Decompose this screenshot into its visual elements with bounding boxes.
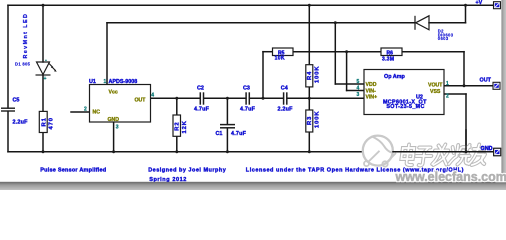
svg-text:VSS: VSS [430, 89, 441, 95]
svg-text:0603: 0603 [438, 36, 449, 41]
svg-text:R1: R1 [41, 117, 47, 126]
svg-text:OUT: OUT [480, 78, 492, 84]
svg-text:1: 1 [446, 81, 449, 87]
svg-text:OUT: OUT [135, 98, 147, 104]
svg-text:R3: R3 [307, 116, 313, 125]
svg-text:+V: +V [476, 0, 483, 6]
svg-text:-: - [45, 58, 47, 64]
svg-text:3: 3 [357, 92, 360, 98]
svg-text:12K: 12K [182, 120, 188, 133]
svg-text:4.7uF: 4.7uF [240, 107, 256, 113]
svg-text:4.7uF: 4.7uF [194, 107, 210, 113]
svg-text:R6: R6 [387, 50, 394, 56]
svg-text:VIN-: VIN- [366, 89, 377, 95]
svg-text:1: 1 [104, 79, 107, 85]
svg-text:VOUT: VOUT [428, 83, 443, 89]
svg-text:GND: GND [108, 117, 120, 123]
svg-text:RevMnt LED: RevMnt LED [23, 13, 29, 59]
svg-text:2.2uF: 2.2uF [278, 107, 294, 113]
svg-text:100K: 100K [314, 111, 320, 128]
svg-text:+: + [44, 76, 47, 82]
svg-text:C3: C3 [243, 86, 250, 92]
svg-text:U1: U1 [89, 79, 96, 85]
svg-text:VIN+: VIN+ [366, 95, 378, 101]
svg-text:C5: C5 [13, 98, 20, 104]
svg-text:C2: C2 [197, 86, 204, 92]
svg-text:APDS-9008: APDS-9008 [109, 79, 138, 85]
svg-text:Designed by Joel Murphy: Designed by Joel Murphy [148, 168, 227, 174]
svg-text:10K: 10K [275, 56, 285, 62]
svg-text:D1 805: D1 805 [15, 62, 31, 67]
svg-text:Pulse Sensor Amplified: Pulse Sensor Amplified [40, 168, 106, 174]
svg-text:R2: R2 [174, 121, 180, 130]
svg-text:VDD: VDD [366, 82, 377, 88]
svg-text:5: 5 [357, 79, 360, 85]
svg-text:C1: C1 [216, 131, 223, 137]
svg-text:3: 3 [116, 125, 119, 131]
svg-text:R4: R4 [307, 71, 313, 80]
svg-text:Op Amp: Op Amp [384, 74, 405, 80]
svg-text:3.3M: 3.3M [382, 57, 394, 63]
svg-text:4.7uF: 4.7uF [231, 131, 247, 137]
svg-text:4: 4 [357, 86, 360, 92]
svg-text:100K: 100K [314, 66, 320, 83]
svg-text:SOT-23-5_MC: SOT-23-5_MC [386, 104, 424, 110]
svg-text:2.2uF: 2.2uF [13, 120, 29, 126]
svg-text:2: 2 [446, 94, 449, 100]
svg-text:470: 470 [49, 117, 55, 129]
svg-text:C4: C4 [281, 86, 288, 92]
svg-text:www.elecfans.com: www.elecfans.com [395, 170, 506, 184]
svg-text:GND: GND [481, 146, 493, 152]
svg-text:NC: NC [93, 110, 101, 116]
svg-text:Vcc: Vcc [109, 90, 118, 96]
svg-text:4: 4 [151, 93, 154, 99]
svg-text:2: 2 [84, 107, 87, 113]
